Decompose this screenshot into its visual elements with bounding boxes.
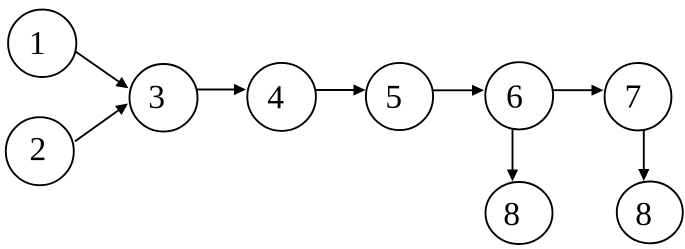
- node 2: [6, 117, 74, 185]
- arrow 1 to 3: [75, 51, 128, 88]
- node 6: [485, 62, 553, 129]
- node 1: [8, 10, 76, 77]
- arrow 4 to 5: [314, 84, 366, 95]
- arrow 6 to 7: [552, 85, 604, 96]
- arrow 7 to 8: [638, 130, 649, 181]
- arrow 6 to 8: [507, 129, 518, 181]
- arrow 5 to 6: [432, 85, 485, 96]
- node 5: [366, 63, 433, 130]
- arrow 3 to 4: [197, 84, 247, 95]
- node 8: [617, 182, 683, 244]
- node 8: [486, 182, 553, 244]
- node 3: [130, 64, 198, 132]
- node 4: [247, 63, 316, 131]
- arrow 2 to 3: [75, 104, 128, 142]
- node 7: [605, 63, 672, 130]
